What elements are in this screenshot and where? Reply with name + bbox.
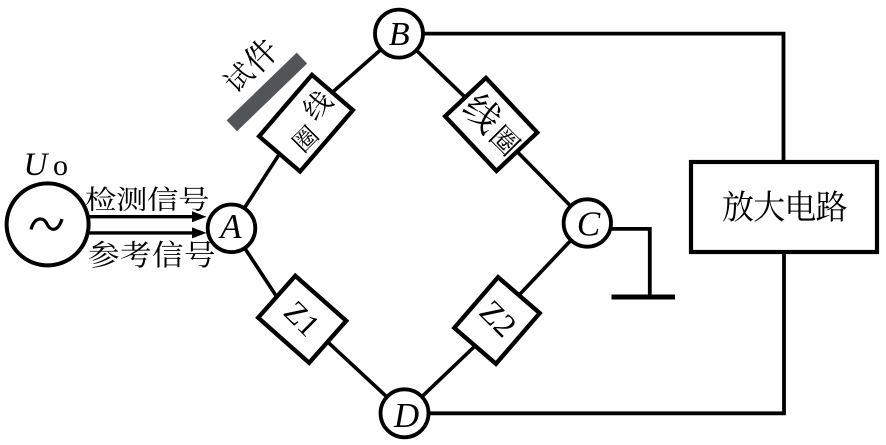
svg-text:D: D	[393, 396, 419, 435]
test piece bar	[227, 53, 308, 132]
node C	[564, 199, 611, 246]
arrow detection signal	[88, 215, 194, 218]
test piece label 试	[220, 59, 256, 95]
node D	[381, 389, 429, 437]
impedance Z1 box	[258, 276, 346, 363]
coil L1 label 圈	[290, 123, 320, 153]
impedance Z2 box	[454, 277, 539, 364]
wire Z1 box to node D	[328, 342, 405, 413]
coil L2 label 线	[459, 89, 506, 136]
node A	[208, 205, 256, 253]
ground	[612, 295, 676, 300]
label 检测信号	[86, 186, 116, 211]
coil L2 box (B-C branch, reference coil)	[445, 78, 537, 171]
wire Z2 box to node C	[519, 223, 587, 295]
svg-text:A: A	[218, 207, 242, 246]
wire C to ground	[587, 229, 650, 296]
wire B to coil L2 box	[399, 34, 465, 98]
coil L1 box (A-B branch, sensing coil)	[259, 75, 353, 172]
svg-text:U: U	[24, 147, 50, 183]
wire B to amplifier (top)	[399, 34, 784, 162]
wire A to coil L1 box	[232, 154, 280, 228]
coil L2 label 圈	[488, 123, 523, 158]
wire coil L2 box to node C	[517, 152, 587, 224]
amplifier label 放大电路	[723, 190, 753, 221]
impedance Z1 label	[277, 294, 326, 343]
wire coil L1 box to node B	[332, 34, 399, 93]
coil L1 label 线	[299, 87, 335, 123]
amplifier box	[691, 162, 877, 252]
node B	[375, 10, 423, 58]
test piece label 件	[240, 34, 282, 76]
wire D to Z2 box	[405, 346, 476, 413]
impedance Z2 label	[472, 294, 523, 345]
svg-text:C: C	[577, 205, 601, 244]
svg-text:o: o	[53, 149, 68, 182]
svg-text:B: B	[389, 16, 410, 53]
arrow reference signal	[88, 231, 194, 234]
wire D to amplifier (bottom)	[405, 252, 785, 413]
label 参考信号	[89, 241, 119, 268]
AC source Uo	[7, 183, 89, 265]
wire A to Z1 box	[232, 228, 277, 297]
AC tilde	[31, 219, 62, 230]
